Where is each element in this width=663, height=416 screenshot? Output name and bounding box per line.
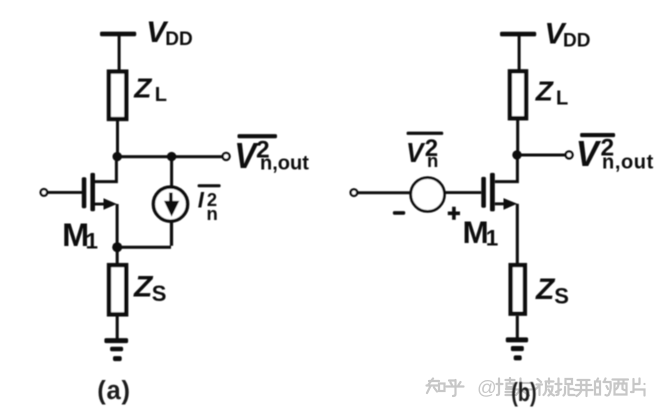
label In2 overline (a) [198, 184, 221, 187]
长 [516, 379, 532, 396]
svg-text:DD: DD [165, 29, 192, 50]
mosfet gate bar (b) [481, 177, 486, 208]
svg-text:n: n [427, 150, 438, 171]
wire ZL to drain node (a) [116, 118, 119, 157]
label V_DD (b) [545, 18, 591, 52]
watermark zhihu text [427, 378, 645, 396]
wire source to ZS node (a) [116, 204, 119, 248]
捉 [556, 379, 575, 396]
impedance Z_S (a) [109, 265, 126, 314]
current noise source In2 (a) [153, 187, 187, 221]
wire VDD to ZL (a) [118, 36, 121, 71]
被 [535, 379, 555, 396]
wire In junction to current source (a) [170, 157, 173, 188]
label V2n,out overline (a) [238, 134, 278, 138]
plus terminal label (b) [448, 207, 460, 220]
node drain (a) [113, 152, 122, 161]
impedance Z_L (b) [510, 71, 526, 118]
svg-text:V: V [576, 133, 601, 174]
wire node to ZS (a) [116, 247, 119, 264]
svg-text:Z: Z [535, 273, 556, 306]
wire input to gate (a) [48, 191, 82, 194]
label V2n,out overline (b) [580, 133, 615, 137]
impedance Z_L (a) [109, 72, 126, 119]
wire source down to ZS (b) [516, 204, 519, 265]
node drain (b) [512, 150, 521, 159]
svg-text:1: 1 [86, 229, 99, 254]
svg-text:(b): (b) [511, 377, 536, 406]
的 [595, 379, 611, 396]
impedance Z_S (b) [511, 265, 525, 314]
label Z_S (b) [535, 273, 569, 308]
擅 [497, 378, 515, 395]
wire input to noise source (b) [358, 191, 411, 194]
svg-text:I: I [198, 188, 205, 213]
VDD supply bar (a) [100, 32, 136, 37]
svg-text:(a): (a) [97, 377, 131, 405]
svg-text:Z: Z [133, 73, 152, 104]
svg-text:@: @ [477, 377, 497, 399]
svg-text:n: n [207, 203, 218, 224]
svg-text:1: 1 [486, 225, 499, 250]
svg-text:S: S [152, 281, 167, 306]
label Vn2 overline (b) [407, 132, 444, 135]
知 [427, 379, 440, 394]
svg-text:n,out: n,out [602, 151, 654, 173]
mosfet M1 source lead with arrow (a) [95, 198, 117, 210]
label M1 (a) [62, 217, 98, 254]
output terminal (b) [566, 151, 573, 158]
弄 [575, 380, 593, 396]
svg-text:DD: DD [563, 30, 590, 51]
label Z_L (a) [133, 73, 167, 107]
node source junction (a) [112, 242, 122, 252]
label Z_L (b) [535, 75, 568, 109]
乎 [447, 380, 464, 396]
ground (a) [104, 338, 128, 361]
svg-text:n,out: n,out [260, 153, 309, 175]
input terminal (b) [351, 189, 358, 196]
wire ZS to ground (b) [516, 316, 519, 338]
wire ZS to ground (a) [116, 317, 119, 339]
mosfet M1 gate bar (a) [82, 177, 87, 208]
wire drain node to In junction (a) [117, 155, 172, 158]
label V2n,out (b) [576, 133, 654, 174]
mosfet drain lead (b) [495, 157, 519, 183]
西 [613, 380, 629, 395]
svg-text:Z: Z [535, 75, 554, 106]
input terminal (a) [41, 189, 48, 196]
svg-text:V: V [406, 137, 426, 168]
svg-text:L: L [155, 84, 167, 106]
wire VDD to ZL (b) [518, 36, 521, 70]
片 [631, 379, 645, 396]
mosfet source lead with arrow (b) [495, 198, 518, 210]
label M1 (b) [463, 214, 499, 251]
mosfet channel bar (b) [490, 173, 495, 212]
wire to output terminal (a) [172, 155, 222, 158]
minus terminal label (b) [393, 211, 405, 215]
wire to output terminal (b) [517, 154, 565, 157]
wire ZL to drain node (b) [516, 117, 519, 156]
mosfet M1 drain lead (a) [95, 157, 118, 183]
svg-text:S: S [554, 283, 569, 308]
label Z_S (a) [133, 270, 166, 306]
label Vn2 (b) [406, 135, 438, 171]
ground (b) [506, 337, 528, 360]
wire noise source to gate (b) [444, 191, 481, 194]
label V2n,out (a) [234, 135, 309, 176]
svg-text:V: V [234, 135, 258, 176]
wire current source to source node (a) [117, 221, 173, 249]
VDD supply bar (b) [500, 32, 536, 37]
label In2 (a) [198, 188, 218, 224]
svg-text:L: L [556, 88, 568, 110]
label V_DD (a) [146, 16, 192, 50]
node In junction (a) [167, 152, 176, 161]
mosfet M1 channel bar (a) [90, 173, 95, 211]
output terminal (a) [223, 153, 230, 160]
voltage noise source Vn2 (b) [411, 178, 445, 212]
